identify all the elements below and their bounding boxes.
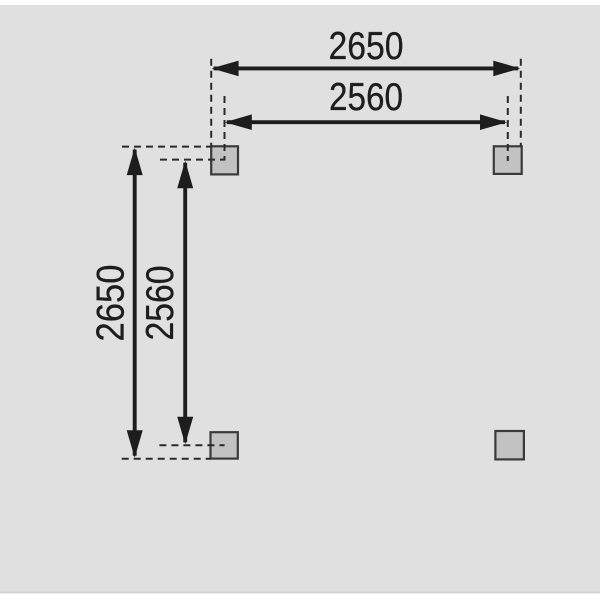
svg-text:2650: 2650 <box>329 25 404 68</box>
svg-text:2650: 2650 <box>90 265 133 342</box>
svg-text:2560: 2560 <box>329 76 403 119</box>
svg-text:2560: 2560 <box>139 266 182 341</box>
